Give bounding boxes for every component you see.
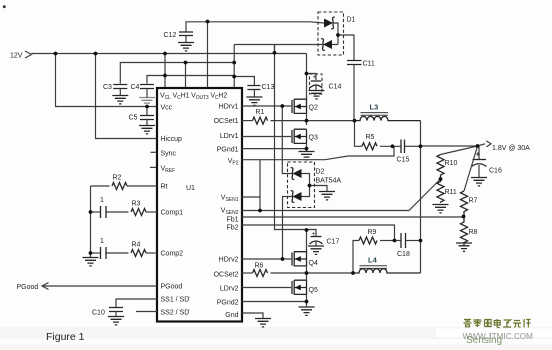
- resistor R10: [437, 146, 478, 179]
- transistor Q3: [292, 129, 318, 152]
- svg-text:C4: C4: [131, 84, 140, 91]
- svg-text:LDrv1: LDrv1: [220, 133, 239, 140]
- svg-text:R2: R2: [113, 175, 122, 182]
- svg-text:R1: R1: [256, 109, 265, 116]
- wire C12 top rail to D1: [186, 22, 324, 32]
- svg-text:R10: R10: [445, 160, 458, 167]
- svg-text:Gnd: Gnd: [225, 312, 238, 319]
- junction 12V/D1 stub: [273, 51, 277, 55]
- node output port 1.8V: [486, 141, 491, 147]
- transistor Q4: [292, 249, 318, 273]
- junction C15/output bus: [419, 144, 423, 148]
- junction phase2/Q4 source: [305, 271, 309, 275]
- wire bypass rail y76: [147, 76, 254, 86]
- svg-text:C10: C10: [92, 310, 105, 317]
- svg-text:R3: R3: [132, 201, 141, 208]
- wire Vcc drop from rail: [56, 54, 158, 107]
- junction VCL/C4 rail: [163, 74, 167, 78]
- wire VCL pin drop: [164, 54, 166, 89]
- capacitor C14: [309, 74, 342, 99]
- svg-text:PGnd2: PGnd2: [217, 300, 239, 307]
- wire D2 bottom cathode to HDrv2 junction: [283, 197, 293, 260]
- resistor R11: [433, 179, 457, 213]
- junction D2 common: [308, 184, 312, 188]
- capacitor C12: [164, 32, 195, 51]
- junction VCH2/VCH rail: [232, 61, 236, 65]
- inductor L4: [353, 256, 421, 274]
- svg-text:R5: R5: [366, 134, 375, 141]
- junction PGnd1/Q3 source: [305, 147, 309, 151]
- junction HDrv2/Q4 gate: [281, 257, 285, 261]
- ground comp network: [83, 258, 99, 266]
- svg-text:Vcc: Vcc: [161, 105, 173, 112]
- svg-text:SS1 / SD: SS1 / SD: [161, 297, 190, 304]
- svg-text:R4: R4: [132, 242, 141, 249]
- wire VCH rail y62.5: [120, 63, 234, 84]
- svg-text:D1: D1: [347, 17, 356, 24]
- svg-text:D2: D2: [316, 169, 325, 176]
- svg-text:PGood: PGood: [17, 284, 39, 291]
- svg-text:SS2 / SD: SS2 / SD: [161, 310, 190, 317]
- wire PGnd2: [242, 301, 307, 303]
- ground IC Gnd: [255, 319, 271, 327]
- junction VSEN1/VSEN2: [258, 209, 262, 213]
- junction 12V/VCL: [163, 52, 167, 56]
- junction C18/output bus: [419, 239, 423, 243]
- capacitor C17: [307, 230, 340, 255]
- svg-text:Sync: Sync: [161, 151, 177, 158]
- wire PGnd1: [242, 148, 307, 150]
- wire Gnd pin to ground: [242, 313, 263, 319]
- svg-text:+: +: [313, 74, 317, 81]
- junction R7/R8/Fb1: [462, 215, 466, 219]
- junction phase1/Q2 source: [305, 119, 309, 123]
- junction C14 tap: [305, 72, 309, 76]
- svg-text:C13: C13: [262, 84, 275, 91]
- junction R5/C15: [391, 144, 395, 148]
- svg-text:OCSet2: OCSet2: [214, 272, 239, 279]
- svg-text:C15: C15: [397, 157, 410, 164]
- junction PGnd2/Q5 source: [305, 300, 309, 304]
- faint background bands bottom: [0, 327, 552, 339]
- svg-text:OCSet1: OCSet1: [214, 118, 239, 125]
- wire line A 12V to C17 rail: [275, 45, 307, 253]
- junction R10/R11: [439, 177, 443, 181]
- junction VOUT3/C12 rail: [206, 20, 210, 24]
- wire 12V down to Q2 drain with C14 tap: [307, 54, 317, 100]
- svg-text:Comp2: Comp2: [161, 251, 184, 258]
- wire Fb1 to R7/R8 junction: [242, 216, 464, 218]
- resistor R9: [353, 229, 395, 273]
- svg-text:1: 1: [100, 238, 104, 245]
- capacitor C10 on SS1: [92, 299, 157, 325]
- junction VCH1 rail: [184, 61, 188, 65]
- svg-text:12V: 12V: [10, 53, 23, 60]
- svg-text:HDrv1: HDrv1: [219, 104, 239, 111]
- wire output to port: [421, 144, 486, 146]
- svg-text:Comp1: Comp1: [161, 210, 184, 217]
- svg-text:PGood: PGood: [161, 284, 183, 291]
- watermark chinese (drawn glyphs): [464, 319, 531, 328]
- junction HDrv1/Q2 gate: [280, 104, 284, 108]
- svg-text:Fb2: Fb2: [226, 225, 238, 232]
- svg-text:Figure 1: Figure 1: [46, 331, 85, 343]
- capacitor C5: [129, 107, 156, 134]
- svg-text:LDrv2: LDrv2: [220, 286, 239, 293]
- svg-text:Q4: Q4: [309, 260, 318, 267]
- wire D1 lower to rail stub: [234, 45, 322, 54]
- svg-text:L3: L3: [370, 103, 379, 112]
- svg-text:C17: C17: [327, 239, 340, 246]
- capacitor C18: [395, 233, 421, 258]
- svg-text:R11: R11: [445, 189, 457, 196]
- resistor R2 on Rt: [91, 175, 158, 190]
- wire comp network vertical: [90, 186, 92, 258]
- svg-text:1: 1: [100, 197, 104, 204]
- svg-text:Q5: Q5: [309, 287, 318, 294]
- wire line B1 HDrv1 to D2 top cathode: [282, 106, 292, 174]
- svg-text:Q2: Q2: [309, 105, 318, 112]
- resistor R4 + series cap on Comp2: [91, 238, 158, 259]
- wire VCH2 pin drop: [233, 45, 235, 89]
- ground Q5 source: [299, 307, 315, 315]
- junction 12V/Hiccup: [94, 52, 98, 56]
- wire HDrv2 to Q4 gate: [242, 258, 291, 260]
- resistor R8: [456, 217, 478, 252]
- capacitor C4: [131, 84, 156, 106]
- svg-text:Fb1: Fb1: [226, 217, 238, 224]
- svg-text:C11: C11: [363, 61, 375, 68]
- wire VP2 to R5/C15 junction: [242, 146, 394, 159]
- svg-text:C12: C12: [164, 32, 177, 39]
- junction Comp2 cap: [89, 251, 93, 255]
- wire VSEN2 with diagonal to R10/R11: [242, 179, 441, 211]
- IC U1 body: [157, 88, 242, 322]
- svg-text:R7: R7: [469, 198, 478, 205]
- svg-text:1.8V @ 30A: 1.8V @ 30A: [492, 145, 530, 152]
- capacitor C16: [471, 146, 502, 186]
- resistor R3 + series cap on Comp1: [91, 197, 158, 218]
- svg-text:C16: C16: [489, 168, 502, 175]
- svg-text:C14: C14: [329, 84, 342, 91]
- svg-text:Q3: Q3: [309, 135, 318, 142]
- junction Q4 drain/C17: [305, 228, 309, 232]
- svg-text:WWW.JTMIC.COM: WWW.JTMIC.COM: [463, 332, 534, 341]
- wire HDrv1 to Q2 gate: [242, 105, 291, 107]
- wire SS2 stub: [136, 311, 157, 313]
- resistor R5 + capacitor C15 snubber: [355, 121, 421, 164]
- svg-text:Hiccup: Hiccup: [161, 136, 183, 143]
- svg-text:BAT54A: BAT54A: [316, 178, 342, 185]
- junction phase2/L4: [351, 271, 355, 275]
- node output 1.8V: [476, 144, 480, 148]
- capacitor C13: [246, 84, 274, 105]
- junction Vcc/C5: [145, 105, 149, 109]
- resistor R7: [461, 146, 478, 217]
- svg-text:Rt: Rt: [161, 184, 168, 191]
- wire VCH1 pin drop: [185, 63, 187, 89]
- svg-text:R6: R6: [255, 263, 264, 270]
- capacitor C3: [103, 84, 128, 104]
- wire output bus vertical: [420, 121, 422, 273]
- ground Q3 source: [299, 152, 315, 160]
- svg-text:R9: R9: [368, 229, 377, 236]
- junction R9/C18/Fb2: [393, 239, 397, 243]
- resistor R6 on OCSet2/phase wire: [242, 263, 353, 277]
- transistor Q2: [292, 96, 318, 125]
- svg-text:+: +: [476, 152, 480, 159]
- stray ink dot top-left: [3, 5, 6, 8]
- inductor L3: [355, 103, 421, 121]
- junction D1 common: [336, 33, 340, 37]
- wire LDrv1 to Q3 gate: [242, 136, 291, 138]
- wire 12V rail: [32, 53, 307, 55]
- wire Fb2 to R9/C18 junction: [242, 225, 395, 241]
- junction 12V/Vcc: [54, 52, 58, 56]
- svg-text:C18: C18: [397, 251, 410, 258]
- svg-text:R8: R8: [469, 229, 478, 236]
- svg-text:HDrv2: HDrv2: [219, 257, 239, 264]
- junction Comp1 cap: [89, 210, 93, 214]
- diode D1 dual package: [318, 12, 356, 61]
- wire VSEN1 jog: [242, 160, 260, 211]
- wire VOUT3 pin drop: [207, 22, 209, 89]
- svg-text:U1: U1: [186, 185, 195, 192]
- svg-text:C3: C3: [103, 84, 112, 91]
- resistor R1 on OCSet1/phase wire: [242, 109, 355, 124]
- svg-text:PGnd1: PGnd1: [217, 147, 239, 154]
- wire Hiccup drop from rail: [96, 54, 158, 139]
- svg-text:C5: C5: [129, 115, 138, 122]
- transistor Q5: [292, 273, 318, 302]
- junction VCH2/C13 rail: [232, 75, 236, 79]
- capacitor C11: [347, 61, 375, 121]
- svg-text:L4: L4: [368, 256, 378, 265]
- junction phase1/L3: [353, 119, 357, 123]
- diode D2 dual package BAT54A: [288, 162, 342, 208]
- wire LDrv2 to Q5 gate: [242, 287, 291, 289]
